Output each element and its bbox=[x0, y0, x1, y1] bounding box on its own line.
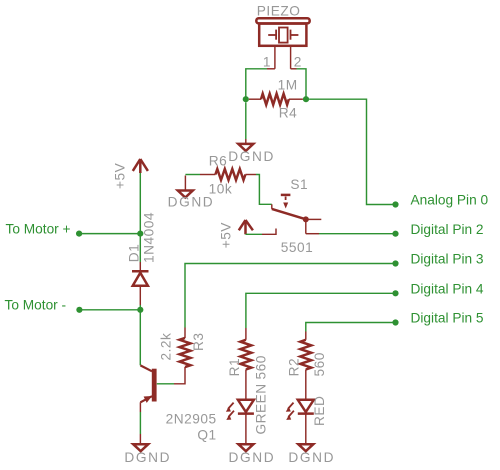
name label Q1 bbox=[197, 428, 216, 443]
value label 10k bbox=[209, 181, 233, 196]
resistor R4 bbox=[249, 94, 303, 105]
svg-text:To Motor -: To Motor - bbox=[5, 298, 67, 313]
wire To Motor - node to transistor bbox=[139, 310, 141, 366]
wire To Motor - bbox=[79, 309, 140, 311]
piezo pin 1 bbox=[274, 46, 276, 69]
pin dot Analog Pin 0 bbox=[392, 201, 398, 207]
svg-text:DGND: DGND bbox=[168, 195, 215, 210]
wire Digital Pin 5 to R2 bbox=[306, 323, 396, 340]
svg-text:Q1: Q1 bbox=[197, 428, 216, 443]
ground label DGND (LED2) bbox=[288, 450, 335, 465]
node To Motor - stub dot bbox=[76, 307, 82, 313]
value label 1M bbox=[278, 77, 298, 92]
ground label DGND (R6) bbox=[168, 195, 215, 210]
svg-text:DGND: DGND bbox=[124, 450, 171, 465]
svg-text:R2: R2 bbox=[287, 358, 302, 377]
piezo pin 2 bbox=[290, 46, 292, 69]
diode D1 bbox=[132, 271, 149, 286]
net label Digital Pin 3 bbox=[411, 252, 484, 267]
node B junction bbox=[303, 96, 309, 102]
svg-text:R4: R4 bbox=[279, 105, 298, 120]
ground DGND (piezo) bbox=[238, 144, 253, 151]
ground DGND (Q1) bbox=[133, 444, 148, 451]
pin dot Digital Pin 5 bbox=[392, 319, 398, 325]
svg-text:2: 2 bbox=[294, 54, 302, 69]
svg-text:RED: RED bbox=[312, 396, 327, 426]
node A junction bbox=[243, 96, 249, 102]
svg-text:DGND: DGND bbox=[228, 149, 275, 164]
net label Digital Pin 4 bbox=[411, 282, 484, 297]
wire rail to diode D1 bbox=[139, 234, 141, 270]
pin number 1 bbox=[263, 54, 271, 69]
wire To Motor + bbox=[79, 233, 140, 235]
svg-text:R3: R3 bbox=[191, 333, 206, 352]
svg-text:1M: 1M bbox=[278, 77, 298, 92]
ground DGND (LED1) bbox=[238, 444, 253, 451]
net label Digital Pin 5 bbox=[411, 311, 484, 326]
transistor Q1 bbox=[140, 365, 156, 403]
wire transistor emitter to ground bbox=[139, 402, 141, 444]
wire Digital Pin 3 to R3 bbox=[185, 264, 396, 339]
name label R2 bbox=[287, 358, 302, 377]
svg-text:2.2k: 2.2k bbox=[159, 333, 174, 361]
svg-text:DGND: DGND bbox=[288, 450, 335, 465]
wire R2 to LED2 bbox=[305, 370, 307, 400]
net label Analog Pin 0 bbox=[411, 193, 489, 208]
wire Digital Pin 4 to R1 bbox=[246, 293, 396, 340]
svg-text:S1: S1 bbox=[290, 177, 308, 192]
pin dot Digital Pin 2 bbox=[392, 231, 398, 237]
svg-text:1N4004: 1N4004 bbox=[142, 212, 157, 263]
wire R1 to LED1 bbox=[245, 370, 247, 400]
ground DGND (LED2) bbox=[298, 444, 313, 451]
name label D1 bbox=[127, 244, 142, 263]
resistor R2 bbox=[300, 340, 311, 370]
svg-text:R6: R6 bbox=[209, 153, 228, 168]
LED2 RED bbox=[286, 400, 314, 420]
svg-text:5501: 5501 bbox=[281, 240, 313, 255]
wire LED2 to ground bbox=[305, 414, 307, 444]
resistor R6 bbox=[200, 169, 256, 180]
wire piezo pin2 to node B bbox=[291, 69, 306, 99]
name label R3 bbox=[191, 333, 206, 352]
svg-text:+5V: +5V bbox=[113, 162, 128, 189]
value label 2.2k bbox=[159, 333, 174, 361]
wire R3 to transistor base bbox=[157, 367, 185, 384]
LED1 GREEN bbox=[226, 400, 254, 420]
resistor R1 bbox=[240, 340, 251, 370]
ground label DGND (LED1) bbox=[229, 450, 276, 465]
svg-text:+5V: +5V bbox=[219, 222, 234, 249]
node To Motor + junction bbox=[137, 231, 143, 237]
value label GREEN (LED1) bbox=[253, 383, 268, 434]
wire +5V rail down to To Motor + node bbox=[139, 173, 141, 234]
svg-text:Digital Pin 3: Digital Pin 3 bbox=[411, 252, 484, 267]
svg-text:PIEZO: PIEZO bbox=[257, 3, 301, 18]
node To Motor + stub dot bbox=[76, 231, 82, 237]
node To Motor - junction bbox=[137, 307, 143, 313]
value label 5501 bbox=[281, 240, 313, 255]
svg-text:D1: D1 bbox=[127, 244, 142, 263]
value label 560 (R1) bbox=[253, 355, 268, 379]
svg-text:To Motor +: To Motor + bbox=[6, 221, 71, 236]
svg-text:DGND: DGND bbox=[229, 450, 276, 465]
name label R1 bbox=[227, 358, 242, 376]
svg-text:560: 560 bbox=[312, 352, 327, 376]
wire +5V to switch pole bbox=[246, 229, 277, 235]
name label R6 bbox=[209, 153, 228, 168]
piezo SG1 body bbox=[256, 18, 309, 46]
supply +5V (motor rail) bbox=[133, 159, 148, 173]
name label S1 bbox=[290, 177, 308, 192]
wire node A down to ground bbox=[245, 102, 247, 143]
wire LED1 to ground bbox=[245, 414, 247, 444]
supply label +5V (motor rail) bbox=[113, 162, 128, 189]
wire switch to Digital Pin 2 bbox=[319, 233, 396, 235]
supply +5V (switch) bbox=[239, 220, 253, 234]
value label RED (LED2) bbox=[312, 396, 327, 426]
wire R6 left to ground bbox=[185, 175, 200, 191]
svg-text:1: 1 bbox=[263, 54, 271, 69]
svg-text:Digital Pin 4: Digital Pin 4 bbox=[411, 282, 484, 297]
pin dot Digital Pin 4 bbox=[392, 290, 398, 296]
svg-text:Digital Pin 2: Digital Pin 2 bbox=[411, 222, 484, 237]
pin number 2 bbox=[294, 54, 302, 69]
supply label +5V (switch) bbox=[219, 222, 234, 249]
name label R4 bbox=[279, 105, 298, 120]
svg-text:GREEN: GREEN bbox=[253, 383, 268, 434]
net label To Motor + bbox=[6, 221, 71, 236]
svg-text:R1: R1 bbox=[227, 358, 242, 376]
net label To Motor - bbox=[5, 298, 67, 313]
wire diode to To Motor - node bbox=[139, 287, 141, 310]
ground DGND (R6) bbox=[178, 191, 193, 198]
value label 2N2905 bbox=[166, 411, 217, 426]
pin dot Digital Pin 3 bbox=[392, 260, 398, 266]
resistor R3 bbox=[180, 338, 191, 367]
net label Digital Pin 2 bbox=[411, 222, 484, 237]
svg-text:560: 560 bbox=[253, 355, 268, 379]
ground label DGND (Q1) bbox=[124, 450, 171, 465]
piezo SG1 label bbox=[257, 3, 301, 18]
svg-text:Analog Pin 0: Analog Pin 0 bbox=[411, 193, 489, 208]
wire node B to Analog Pin 0 bbox=[309, 99, 395, 204]
svg-text:2N2905: 2N2905 bbox=[166, 411, 217, 426]
value label 560 (R2) bbox=[312, 352, 327, 376]
ground label DGND (piezo) bbox=[228, 149, 275, 164]
svg-text:Digital Pin 5: Digital Pin 5 bbox=[411, 311, 484, 326]
value label 1N4004 bbox=[142, 212, 157, 263]
wire R6 right to switch bbox=[256, 175, 272, 205]
switch S1 bbox=[272, 195, 322, 234]
wire piezo pin1 to node A bbox=[246, 69, 275, 99]
